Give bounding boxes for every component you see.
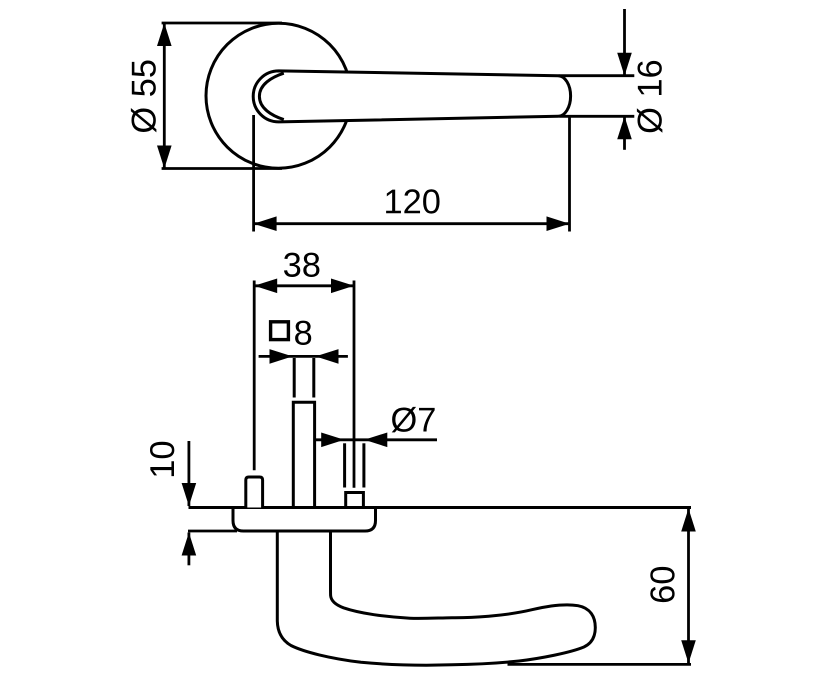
- square spindle right edge: [312, 358, 315, 398]
- dim 38 dimension line: [254, 284, 354, 287]
- label 120: [386, 189, 439, 213]
- dim 38 right arrow: [331, 279, 354, 294]
- dim 120 left arrow: [254, 216, 277, 231]
- dim 8 right arrow: [316, 349, 339, 364]
- dim 120 left extension line: [252, 115, 255, 232]
- label 8: [295, 321, 311, 345]
- dim Ø55 upper arrow: [157, 23, 172, 46]
- dim Ø7 right arrow: [364, 433, 387, 448]
- dim 10 plate-bottom extension line: [188, 530, 237, 533]
- dim 10 upper line: [187, 441, 190, 506]
- dim 10 lower line: [187, 533, 190, 566]
- square spindle left edge: [293, 358, 296, 398]
- dim 60 upper arrow: [681, 509, 696, 532]
- dim Ø16 bottom extension line: [560, 115, 635, 118]
- screw Ø7 right edge: [362, 443, 365, 487]
- dim Ø7 line: [316, 438, 438, 441]
- lever handle outline (top view capsule): [253, 71, 570, 122]
- handle grip outline (side view): [277, 531, 595, 665]
- dim Ø16 dimension line upper part: [623, 9, 626, 76]
- dim Ø7 left arrow: [321, 433, 344, 448]
- label Ø7: [392, 407, 435, 433]
- dim Ø16 dimension line lower part: [623, 116, 626, 150]
- dim 60 bottom extension line: [508, 663, 692, 666]
- dim Ø55 bottom extension line: [162, 167, 282, 170]
- dim Ø55 dimension line: [163, 23, 166, 169]
- dim 120 dimension line: [254, 222, 570, 225]
- screw Ø7 left edge: [343, 443, 346, 487]
- screw head (side view): [346, 493, 364, 508]
- dim 8 left arrow: [270, 349, 293, 364]
- dim 60 dimension line: [687, 509, 690, 664]
- label 10: [150, 442, 174, 476]
- square-8 spindle symbol: [271, 322, 289, 340]
- dim Ø16 top extension line: [559, 74, 635, 77]
- dim 38 left arrow: [254, 279, 277, 294]
- label Ø 16: [637, 61, 663, 133]
- dim Ø55 top extension line: [162, 22, 282, 25]
- label Ø 55: [131, 60, 157, 132]
- dim Ø16 lower arrow: [617, 116, 632, 139]
- dim 10 lower arrow: [182, 533, 197, 556]
- rosette plate (side view): [233, 508, 376, 532]
- label 38: [284, 253, 319, 277]
- door surface line: [189, 506, 692, 509]
- rosette circle Ø55 (top view): [206, 23, 351, 168]
- dim 10 upper arrow: [182, 483, 197, 506]
- lever neck inner arc (top view): [259, 73, 283, 119]
- dim 120 right extension line: [568, 117, 571, 232]
- dim Ø16 upper arrow: [617, 53, 632, 76]
- dim Ø55 lower arrow: [157, 146, 172, 169]
- label 60: [650, 567, 674, 602]
- dim 8 line: [259, 355, 348, 358]
- dim 38 left extension line: [253, 281, 256, 471]
- left screw post (side view): [246, 477, 263, 508]
- dim 38 right extension line: [353, 281, 356, 488]
- dim 60 lower arrow: [681, 640, 696, 663]
- spindle sleeve (side view): [293, 402, 314, 507]
- dim 120 right arrow: [547, 216, 570, 231]
